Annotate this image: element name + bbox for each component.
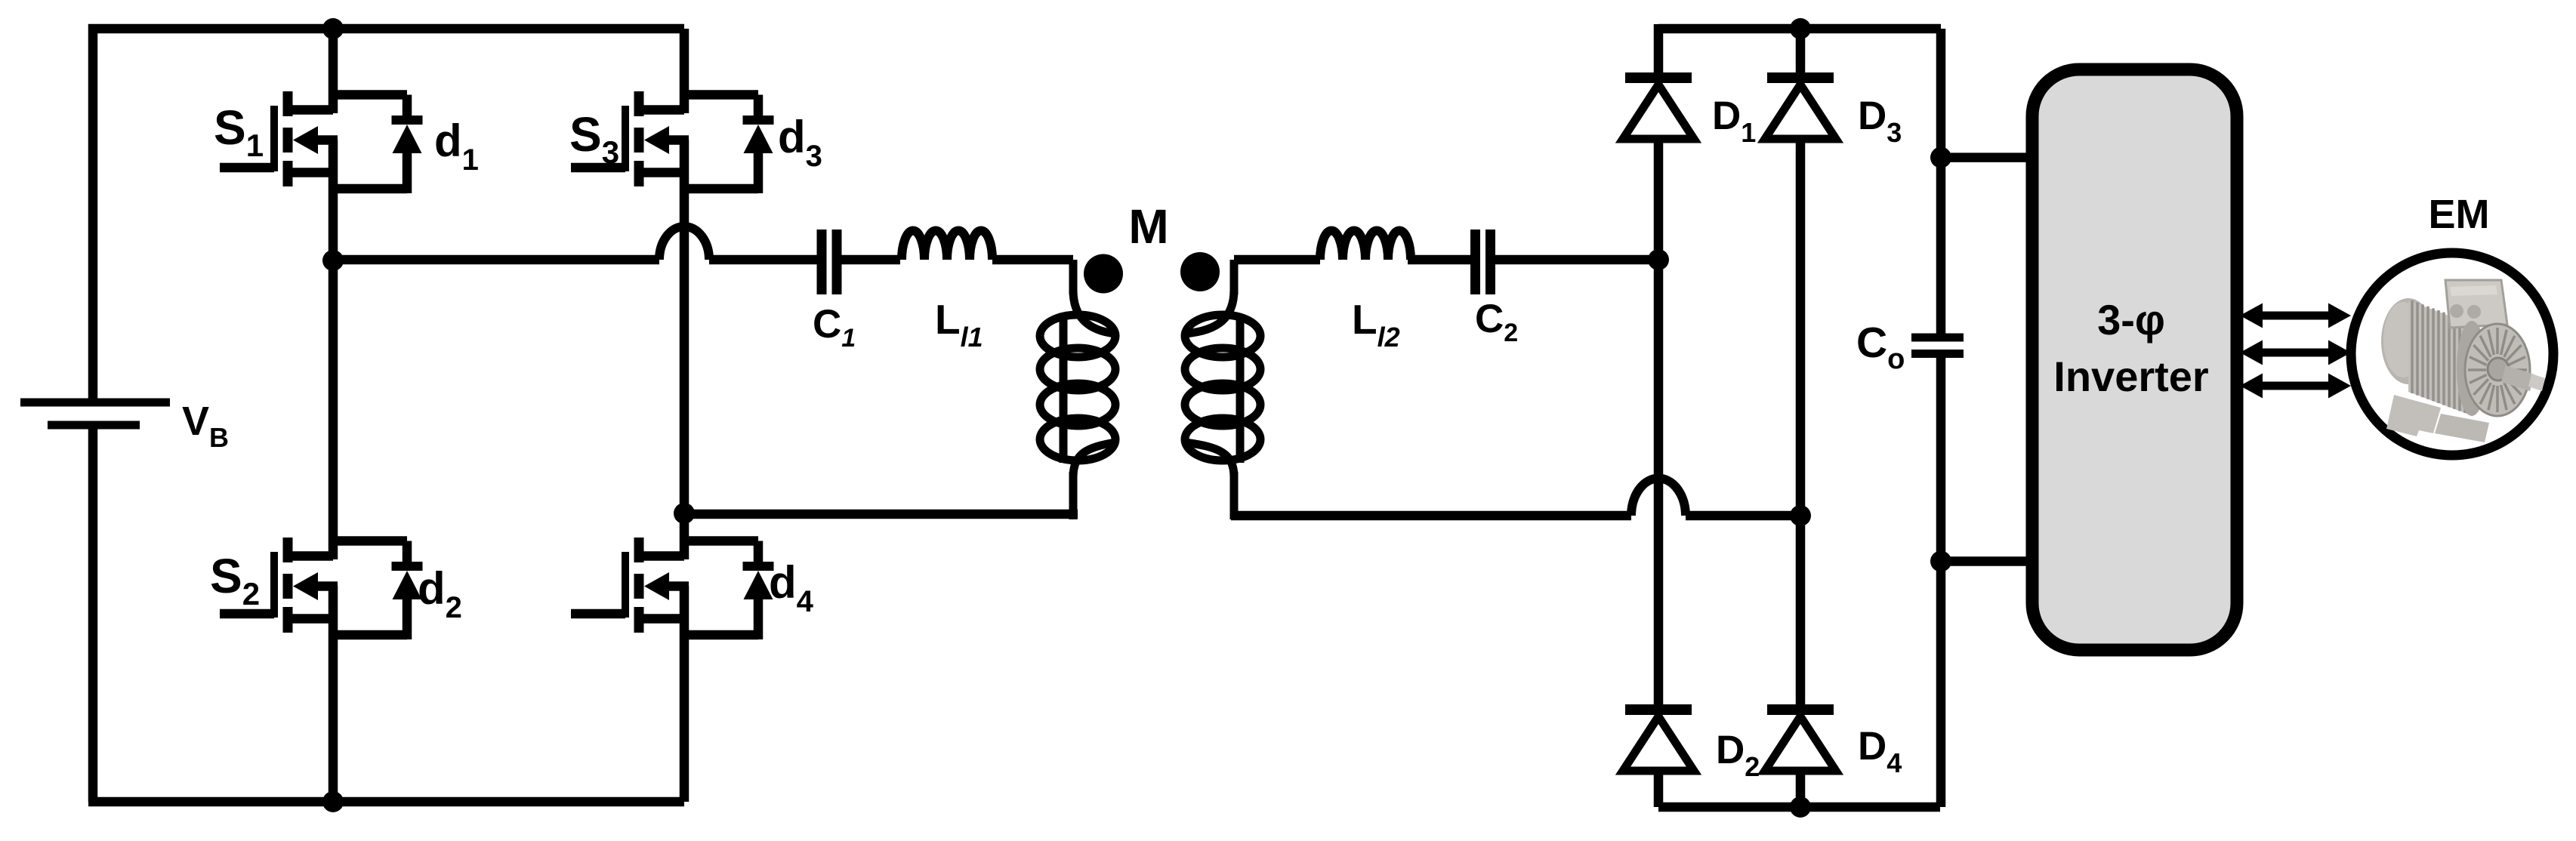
wire C1 to Ll1 [837,255,900,265]
wire hop over S3 leg [659,226,709,260]
label Ll2 [1352,296,1400,353]
electric machine EM [2351,253,2553,455]
transformer secondary dot [1180,252,1220,291]
diode D1 [1623,72,1694,139]
wire phase-B rail [684,510,1078,519]
diode D4 [1765,704,1836,771]
label d3 [778,112,822,173]
svg-text:EM: EM [2429,192,2490,237]
label EM [2429,192,2490,237]
wire Ll2 to C2 [1408,255,1475,265]
diode D2 [1623,704,1694,771]
block 3-phase inverter [2032,69,2237,650]
wire phase-A rail left [333,255,659,265]
svg-text:Inverter: Inverter [2053,353,2208,400]
wire rectifier top rail [1658,24,1941,34]
wire S4 drain lead [680,513,690,559]
wire Ll1 to primary [992,255,1073,265]
label S1 [214,100,264,163]
wire hop over D1 leg [1631,479,1686,516]
transformer secondary winding [1185,260,1260,519]
diode D3 [1765,72,1836,139]
label Ll1 [935,296,983,353]
wire S2 source lead [329,586,338,802]
label D1 [1712,94,1756,148]
wire D2 leg [1654,260,1664,807]
arrow phase c [2240,374,2351,399]
wire rectifier bottom rail [1658,802,1940,812]
wire secondary bottom to D3 leg [1686,511,1800,521]
label Co [1856,319,1905,375]
wire S4 source lead [680,586,690,802]
wire C2 to rectifier [1490,255,1658,265]
wire secondary bottom rail [1231,511,1631,521]
wire S1 drain lead [329,29,338,113]
node rectifier bottom junction [1790,796,1811,818]
capacitor Co [1911,334,1964,359]
node secondary-bottom junction [1790,505,1811,526]
svg-text:M: M [1128,199,1168,254]
label M [1128,199,1168,254]
label C1 [813,302,856,353]
battery VB [20,399,170,430]
wire primary bottom [1069,510,1078,519]
label VB [182,399,229,453]
svg-text:3-φ: 3-φ [2097,296,2165,343]
label d4 [769,557,814,618]
wire D3 leg [1796,29,1806,516]
wire S2 drain lead [329,260,338,559]
label S3 [569,107,619,170]
wire phase-A rail right [709,255,822,265]
node DC+ junction [1930,147,1951,168]
wire DC+ to inverter [1941,152,2039,162]
label d2 [418,563,462,624]
label D2 [1716,728,1760,782]
transistor Q S1 (MOSFET) [220,91,423,193]
transistor Q S4 (MOSFET) [571,538,774,639]
label d1 [434,116,479,177]
wire top-left rail [88,24,684,34]
capacitor C1 [817,230,842,294]
node rectifier top junction [1790,18,1811,39]
arrow phase a [2240,303,2351,328]
wire battery positive lead [88,24,98,402]
node top-left junction [322,18,344,39]
label S2 [210,549,260,611]
wire S3 drain lead [680,29,690,113]
wire DC- to inverter [1941,556,2039,566]
wire D1 leg [1654,24,1664,260]
node A phase junction [322,250,344,271]
transistor Q S2 (MOSFET) [220,538,423,639]
node bottom-left junction [322,791,344,812]
label D3 [1858,94,1902,148]
label D4 [1858,724,1902,778]
wire S1 source lead [329,140,338,260]
wire battery negative lead [88,425,98,802]
wire S3 source lead [680,140,690,513]
wire bottom-left rail [88,797,684,807]
inductor Ll1 [902,231,992,260]
wire D4 leg [1796,516,1806,807]
transistor Q S3 (MOSFET) [571,91,774,193]
arrow phase b [2240,340,2351,365]
node B phase junction [674,503,695,524]
node secondary-top junction [1648,249,1669,270]
label C2 [1475,297,1518,347]
transformer primary dot [1084,254,1123,294]
capacitor C2 [1470,230,1495,294]
wire secondary top rail [1234,255,1320,265]
transformer primary winding [1040,260,1115,519]
inductor Ll2 [1320,231,1411,260]
node DC- junction [1930,551,1951,572]
wire DC bus vertical [1936,29,1946,807]
